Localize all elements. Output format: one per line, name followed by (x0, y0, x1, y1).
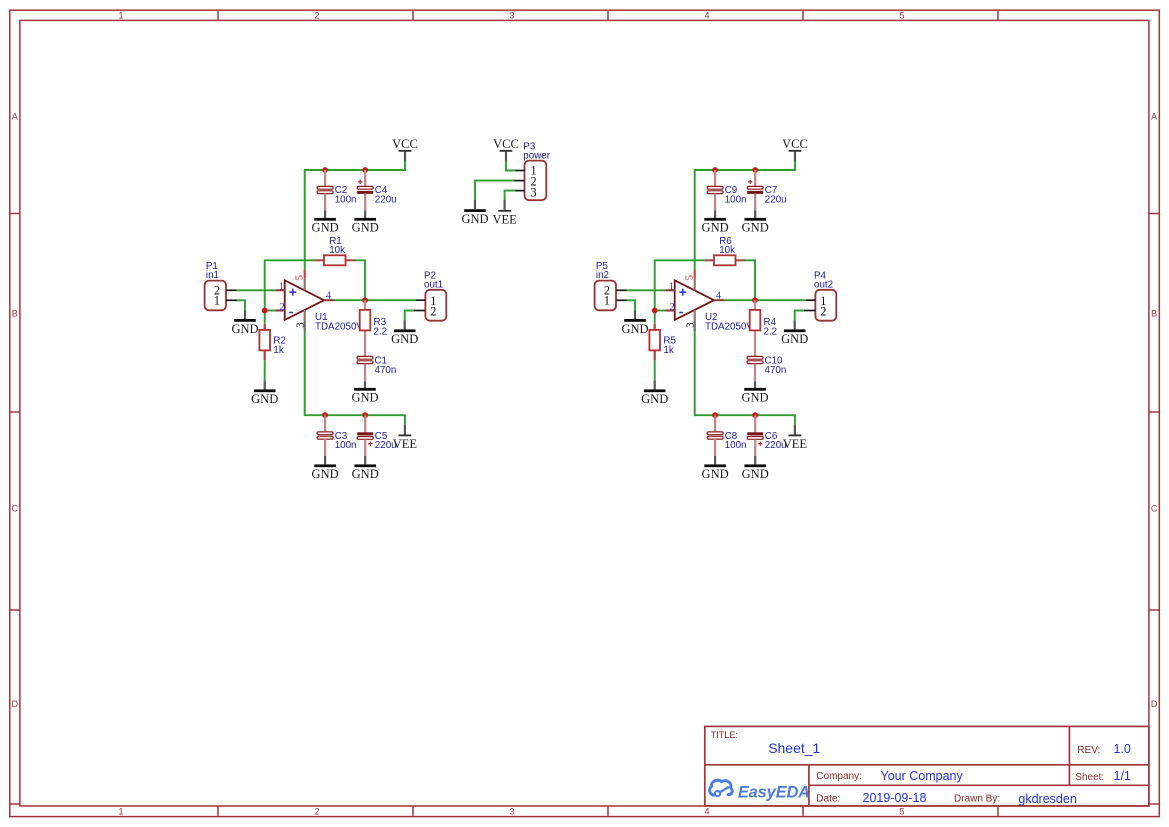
power flag VEE at P3 (504, 200, 506, 210)
ground below C9 (702, 218, 729, 235)
ground below C10 (741, 388, 768, 405)
frame row labels right (1151, 112, 1158, 710)
svg-text:100n: 100n (725, 195, 747, 206)
svg-text:470n: 470n (765, 365, 787, 376)
resistor R4 2.2 leads (754, 300, 756, 310)
frame row ticks left (10, 214, 20, 805)
capacitor C4 lead (364, 170, 366, 187)
svg-text:GND: GND (641, 392, 668, 406)
svg-text:REV:: REV: (1077, 745, 1100, 756)
svg-text:GND: GND (352, 221, 379, 235)
wire output connector pin to ground (405, 311, 414, 321)
svg-text:3: 3 (294, 322, 306, 327)
capacitor C7 lead (754, 170, 756, 187)
svg-text:4: 4 (704, 807, 709, 817)
wire inverting node down to R (654, 311, 656, 324)
ground below input connector (244, 311, 246, 320)
svg-text:220u: 220u (765, 195, 787, 206)
svg-text:1/1: 1/1 (1114, 769, 1131, 783)
ground below C2 (312, 218, 339, 235)
svg-text:GND: GND (312, 467, 339, 481)
ground below C8 (702, 464, 729, 481)
capacitor C5 bottom lead (364, 439, 366, 456)
capacitor C3 bottom lead (324, 439, 326, 456)
capacitor C2 100n (317, 186, 333, 193)
ground below C4 (352, 218, 379, 235)
svg-text:100n: 100n (725, 440, 747, 451)
connector P4 pin stubs (806, 299, 816, 301)
svg-text:4: 4 (716, 290, 721, 301)
wire input to pin 1 (237, 289, 276, 291)
svg-text:3: 3 (509, 807, 514, 817)
resistor R3 2.2 leads (364, 300, 366, 310)
svg-text:gkdresden: gkdresden (1018, 792, 1076, 806)
junction VEE rail / C5 (362, 412, 368, 418)
wire output node (725, 299, 806, 301)
wire pin 3 down to VEE rail (694, 331, 696, 415)
connector P1 pin stubs (226, 289, 237, 291)
svg-text:1: 1 (118, 11, 123, 21)
ground below output connector (794, 321, 796, 330)
wire inverting input (265, 310, 276, 312)
resistor R5 1k leads (654, 324, 656, 331)
power flag VCC (782, 137, 808, 152)
svg-text:GND: GND (742, 467, 769, 481)
capacitor C4 bottom lead (364, 194, 366, 211)
capacitor C7 bottom lead (754, 194, 756, 211)
wire output connector pin to ground (795, 311, 804, 321)
svg-text:GND: GND (781, 332, 808, 346)
svg-text:2: 2 (820, 304, 826, 318)
op-amp pin 3 lead (304, 310, 306, 320)
svg-text:B: B (12, 309, 18, 319)
svg-text:2: 2 (314, 11, 319, 21)
ground below C6 (742, 464, 769, 481)
svg-text:5: 5 (899, 807, 904, 817)
resistor R2 1k (259, 330, 270, 351)
frame column labels bottom (118, 807, 904, 817)
capacitor C3 lead (324, 415, 326, 432)
capacitor C1 470n (357, 356, 373, 363)
svg-text:A: A (12, 112, 18, 122)
capacitor C3 100n (317, 432, 333, 439)
connector P2 (out1) (425, 290, 446, 321)
svg-text:GND: GND (621, 322, 648, 336)
svg-text:2: 2 (430, 304, 436, 318)
ground below output connector (404, 321, 406, 330)
junction VEE rail / C8 (712, 412, 718, 418)
wire output node (335, 299, 416, 301)
svg-text:2019-09-18: 2019-09-18 (863, 791, 927, 805)
ground below P3 pin 2 (474, 200, 476, 209)
op-amp U2 pin stubs (665, 290, 724, 310)
capacitor C6 lead (754, 415, 756, 432)
svg-text:out1: out1 (424, 280, 443, 291)
op-amp pin 3 lead (694, 310, 696, 320)
connector P2 pin stubs (416, 299, 426, 301)
capacitor C4 220u polarized (357, 180, 373, 194)
svg-text:3: 3 (531, 185, 537, 199)
svg-text:5: 5 (899, 11, 904, 21)
junction VEE rail / C6 (752, 412, 758, 418)
svg-text:power: power (523, 151, 550, 162)
svg-text:VEE: VEE (393, 437, 418, 451)
resistor R5 1k (649, 330, 660, 351)
junction output node / R3 (362, 297, 368, 303)
ground below C1 (351, 388, 378, 405)
power flag VEE (404, 425, 406, 434)
frame column labels top (118, 11, 904, 21)
junction VCC rail / C9 (712, 167, 718, 173)
op-amp pin 5 lead (304, 270, 306, 278)
junction VCC rail / C7 (752, 167, 758, 173)
connector P5 pin stubs (616, 289, 627, 291)
ground below R2 (264, 380, 266, 389)
svg-text:2: 2 (279, 302, 284, 313)
wire P3 pin 2 to ground (475, 181, 514, 200)
title block outline (705, 726, 1149, 806)
wire pin 3 down to VEE rail (304, 331, 306, 415)
capacitor C2 lead (324, 170, 326, 187)
svg-text:470n: 470n (375, 365, 397, 376)
svg-text:in1: in1 (206, 270, 219, 281)
svg-text:VCC: VCC (392, 137, 418, 151)
resistor R4 2.2 (750, 310, 761, 331)
svg-text:1: 1 (214, 294, 220, 308)
svg-text:A: A (1151, 112, 1157, 122)
power flag VCC at P3 (493, 137, 519, 152)
svg-text:VCC: VCC (493, 137, 519, 151)
svg-text:VEE: VEE (492, 212, 517, 226)
capacitor C2 bottom lead (324, 194, 326, 211)
op-amp pin 5 lead (694, 270, 696, 278)
svg-text:VCC: VCC (782, 137, 808, 151)
capacitor C10 470n (747, 356, 763, 363)
svg-text:GND: GND (702, 221, 729, 235)
frame row labels left (12, 112, 19, 710)
svg-text:100n: 100n (335, 440, 357, 451)
svg-text:D: D (12, 699, 19, 709)
power flag VEE (794, 425, 796, 434)
ground below input connector (634, 311, 636, 320)
svg-text:TDA2050V: TDA2050V (315, 322, 363, 333)
junction VCC rail / C4 (362, 167, 368, 173)
junction output node / R4 (752, 297, 758, 303)
ground below R5 (654, 380, 656, 389)
svg-text:100n: 100n (335, 195, 357, 206)
svg-text:2: 2 (669, 302, 674, 313)
power flag VCC (392, 137, 418, 152)
svg-text:GND: GND (351, 391, 378, 405)
svg-text:EasyEDA: EasyEDA (738, 783, 810, 801)
connector P4 (out2) (815, 290, 836, 321)
ground below C7 (742, 218, 769, 235)
svg-text:GND: GND (461, 212, 488, 226)
frame column ticks top (218, 10, 998, 20)
wire VEE rail (695, 415, 795, 425)
svg-text:out2: out2 (814, 280, 833, 291)
resistor R3 2.2 (360, 310, 371, 331)
svg-text:GND: GND (742, 221, 769, 235)
wire VCC rail to pin 5 (U2 channel) (695, 161, 795, 271)
connector P1 (in1) (205, 281, 226, 311)
svg-text:Company:: Company: (816, 771, 862, 782)
wire feedback left vertical (265, 260, 316, 310)
wire R below to ground (654, 360, 656, 380)
svg-text:4: 4 (704, 11, 709, 21)
capacitor C10 bottom lead (754, 364, 756, 382)
svg-text:C: C (1151, 504, 1158, 514)
junction inverting input / R2 (262, 308, 268, 314)
svg-text:VEE: VEE (783, 437, 808, 451)
capacitor C8 bottom lead (714, 439, 716, 456)
wire input to pin 1 (627, 289, 666, 291)
svg-text:Your Company: Your Company (881, 769, 964, 783)
ground below C5 (352, 464, 379, 481)
svg-text:Sheet:: Sheet: (1075, 772, 1104, 783)
capacitor C5 220u polarized (357, 432, 373, 446)
wire P3 pin 3 to VEE (505, 191, 516, 200)
capacitor C8 lead (714, 415, 716, 432)
svg-text:B: B (1151, 309, 1157, 319)
capacitor C6 bottom lead (754, 439, 756, 456)
wire feedback right to output (355, 260, 365, 297)
svg-text:C: C (12, 504, 19, 514)
svg-text:5: 5 (293, 275, 305, 280)
svg-text:1: 1 (118, 807, 123, 817)
svg-text:GND: GND (312, 221, 339, 235)
resistor R6 10k (714, 255, 736, 265)
junction VCC rail / C2 (322, 167, 328, 173)
svg-text:GND: GND (741, 391, 768, 405)
svg-text:2.2: 2.2 (374, 326, 388, 337)
svg-text:Date:: Date: (816, 794, 840, 805)
svg-text:220u: 220u (375, 195, 397, 206)
capacitor C1 bottom lead (364, 364, 366, 382)
wire VCC to P3 pin 1 (506, 161, 516, 171)
frame column ticks bottom (218, 806, 998, 817)
resistor R1 10k (324, 255, 346, 265)
capacitor C9 bottom lead (714, 194, 716, 211)
EasyEDA logo cloud (710, 780, 733, 796)
svg-text:10k: 10k (719, 245, 735, 256)
svg-text:TDA2050V: TDA2050V (705, 322, 753, 333)
svg-text:5: 5 (683, 275, 695, 280)
svg-text:in2: in2 (596, 270, 609, 281)
connector P3 pin stubs (514, 171, 524, 191)
svg-text:GND: GND (231, 322, 258, 336)
wire feedback right to output (745, 260, 755, 297)
op-amp U2 TDA2050V (675, 280, 714, 320)
frame row ticks right (1149, 214, 1159, 805)
svg-text:10k: 10k (329, 245, 345, 256)
op-amp U1 pin stubs (275, 290, 334, 310)
resistor R6 10k leads (705, 259, 714, 261)
svg-text:2: 2 (314, 807, 319, 817)
wire input pin to ground (237, 300, 245, 310)
svg-text:1: 1 (604, 294, 610, 308)
svg-text:1k: 1k (273, 345, 283, 356)
svg-text:4: 4 (326, 290, 331, 301)
op-amp U1 TDA2050V (285, 280, 324, 320)
wire inverting input (655, 310, 666, 312)
svg-text:3: 3 (684, 322, 696, 327)
svg-text:TITLE:: TITLE: (711, 730, 738, 740)
svg-text:D: D (1151, 699, 1158, 709)
svg-text:GND: GND (251, 392, 278, 406)
svg-text:1.0: 1.0 (1114, 742, 1131, 756)
wire inverting node down to R (264, 311, 266, 324)
svg-text:2.2: 2.2 (764, 326, 778, 337)
op-amp plus minus marks (289, 289, 296, 313)
op-amp plus minus marks (679, 289, 686, 313)
connector P3 (power) (525, 161, 547, 201)
junction inverting input / R5 (652, 308, 658, 314)
svg-text:GND: GND (391, 332, 418, 346)
svg-text:GND: GND (352, 467, 379, 481)
svg-text:Sheet_1: Sheet_1 (768, 740, 820, 756)
junction VEE rail / C3 (322, 412, 328, 418)
wire VCC rail to pin 5 (U1 channel) (305, 161, 405, 271)
svg-text:3: 3 (509, 11, 514, 21)
capacitor C7 220u polarized (747, 180, 763, 194)
wire R below to ground (264, 360, 266, 380)
capacitor C9 lead (714, 170, 716, 187)
svg-text:1k: 1k (663, 345, 673, 356)
resistor R2 1k leads (264, 324, 266, 331)
wire feedback left vertical (655, 260, 706, 310)
capacitor C6 220u polarized (747, 432, 763, 446)
wire VEE rail (305, 415, 405, 425)
svg-text:GND: GND (702, 467, 729, 481)
capacitor C8 100n (707, 432, 723, 439)
svg-text:Drawn By:: Drawn By: (954, 794, 1000, 805)
capacitor C5 lead (364, 415, 366, 432)
connector P5 (in2) (595, 281, 616, 311)
svg-text:1: 1 (279, 281, 284, 292)
wire input pin to ground (627, 300, 635, 310)
capacitor C9 100n (707, 186, 723, 193)
resistor R1 10k leads (315, 259, 324, 261)
svg-text:1: 1 (669, 281, 674, 292)
ground below C3 (312, 464, 339, 481)
